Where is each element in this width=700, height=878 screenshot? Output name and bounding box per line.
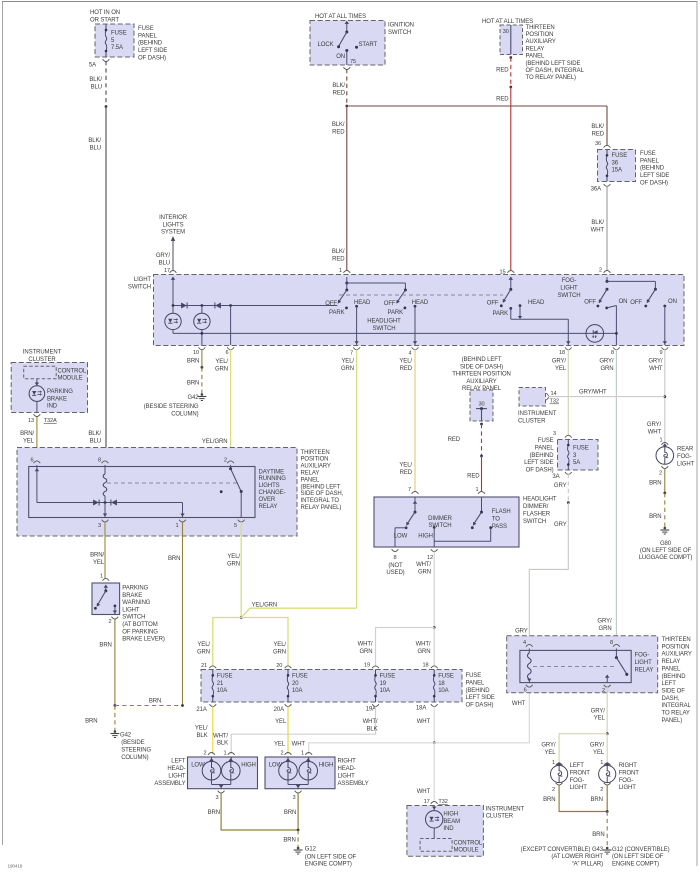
svg-text:LIGHTS: LIGHTS (162, 222, 183, 228)
DRL pin 6 connector (34, 461, 41, 463)
splice node RED (509, 86, 512, 89)
svg-text:WHT/: WHT/ (416, 562, 431, 568)
svg-text:FUSE: FUSE (538, 438, 554, 444)
wire WHT/GRN branch to fuse 19 (376, 628, 435, 667)
fog pole A ON contact to pin 8 (605, 307, 608, 310)
light switch pin 15 connector (507, 271, 514, 273)
svg-text:(BESIDE STEERING: (BESIDE STEERING (144, 404, 199, 410)
right headlight common return (287, 780, 289, 785)
svg-text:MODULE: MODULE (454, 848, 479, 854)
svg-text:ON: ON (336, 54, 345, 60)
wire YEL/GRN from pin 7 down (356, 350, 358, 609)
pin 6 connector (227, 347, 234, 349)
svg-text:RELAY: RELAY (301, 471, 320, 477)
svg-text:9: 9 (659, 350, 662, 356)
ground G42 (beside steering column) (201, 393, 204, 396)
svg-text:1: 1 (339, 268, 342, 274)
dimmer switch blade (413, 501, 417, 504)
svg-text:2: 2 (280, 751, 283, 757)
svg-text:BLK: BLK (217, 741, 228, 747)
DRL diode bus (37, 502, 183, 504)
diode D2 on bus (215, 303, 221, 309)
svg-text:GRY/: GRY/ (591, 708, 606, 714)
svg-text:FOG-: FOG- (570, 778, 585, 784)
svg-text:HOT IN ON: HOT IN ON (90, 10, 120, 16)
svg-text:AUXILIARY: AUXILIARY (526, 39, 556, 45)
svg-text:OF DASH): OF DASH) (526, 468, 554, 474)
wire BRN from rear fog light (664, 468, 666, 493)
svg-text:BRN: BRN (99, 642, 111, 648)
svg-text:YEL/: YEL/ (215, 359, 228, 365)
wire GRY down and over to fog relay pin 4 (529, 503, 568, 646)
svg-text:BRN: BRN (649, 514, 661, 520)
parking brake pin 2 connector (112, 617, 119, 619)
svg-text:8: 8 (610, 640, 613, 646)
PASS contact wiring (489, 526, 492, 529)
wire GRY/GRN from pin 8 to fog light relay pin 8 (615, 350, 617, 646)
wire RED to dimmer switch pin 1 (481, 456, 483, 492)
DRL diode D4 (111, 500, 117, 506)
wire YEL from fuse 20A to right headlight pin 2 (287, 706, 289, 754)
svg-text:7: 7 (408, 487, 411, 493)
pin 8 connector (613, 347, 620, 349)
svg-text:2: 2 (599, 268, 602, 274)
wire GRY/WHT from pin 9 to rear fog light (664, 350, 666, 444)
fog feed PARK contact (509, 307, 512, 310)
svg-text:LIGHT: LIGHT (677, 461, 695, 467)
light switch internal feed from pin 17 (171, 277, 175, 280)
fog relay pin 2 connector (604, 685, 611, 687)
GRY/YEL junction node (606, 732, 609, 735)
svg-text:1: 1 (600, 760, 603, 766)
svg-text:FLASHER: FLASHER (523, 512, 551, 518)
svg-text:GRN: GRN (197, 649, 210, 655)
left headlight pin 1 connector (228, 753, 235, 755)
pin 7 connector (412, 492, 419, 494)
fog switch pole B (654, 288, 657, 291)
svg-text:3: 3 (292, 795, 295, 801)
parking brake warning light switch box (102, 578, 109, 580)
pin 18 connector (565, 347, 572, 349)
svg-text:GRN: GRN (273, 649, 286, 655)
svg-text:T32A: T32A (44, 418, 57, 424)
svg-text:5: 5 (234, 523, 237, 529)
svg-text:GRY/: GRY/ (648, 359, 663, 365)
svg-text:RELAY: RELAY (635, 667, 654, 673)
instrument cluster box (high beam ind) (431, 802, 438, 804)
svg-text:13: 13 (28, 418, 34, 424)
LOW contact to pin 8 (405, 526, 408, 529)
node pin6 branch (229, 304, 232, 307)
fuse F18 10A (433, 670, 435, 676)
fuse panel box (fuse 5) (95, 24, 134, 57)
svg-text:PANEL: PANEL (535, 445, 554, 451)
svg-text:AUXILIARY: AUXILIARY (662, 652, 692, 658)
svg-text:BRN: BRN (149, 698, 161, 704)
svg-text:YEL/: YEL/ (399, 463, 412, 469)
parking brake switch blade (104, 585, 108, 588)
svg-text:DASH,: DASH, (662, 696, 680, 702)
svg-text:19: 19 (380, 681, 387, 687)
light switch pin 17 connector (170, 271, 177, 273)
svg-text:BRN: BRN (283, 838, 295, 844)
fog relay pin 2 arrow contact (606, 677, 608, 683)
mechanical coupling dashed line (339, 294, 503, 296)
svg-text:(BESIDE: (BESIDE (121, 740, 144, 746)
svg-text:COLUMN): COLUMN) (171, 411, 198, 417)
YEL/GRN branch to fuse 20 (241, 618, 288, 667)
fog relay coupling dashed line (533, 666, 614, 668)
svg-text:FUSE: FUSE (111, 31, 127, 37)
fog feed HEAD contact (519, 304, 522, 307)
left headlight common return (211, 780, 213, 785)
wire GRY/WHT horizontal from cluster pin 14 (548, 396, 665, 398)
DRL diode D3 (93, 500, 99, 506)
svg-text:30: 30 (503, 29, 509, 35)
DRL coil from pin 8 (104, 465, 106, 474)
svg-text:BLK/: BLK/ (88, 431, 101, 437)
svg-text:(BEHIND LEFT SIDE: (BEHIND LEFT SIDE (526, 61, 581, 67)
svg-text:190418: 190418 (8, 864, 23, 869)
svg-text:(BEHIND: (BEHIND (138, 41, 163, 47)
svg-text:5A: 5A (89, 63, 96, 69)
wire BRN from right front fog light (606, 785, 608, 812)
svg-text:(ON LEFT SIDE OF: (ON LEFT SIDE OF (612, 854, 664, 860)
wire BLK/RED horizontal to fuse 36 (347, 105, 607, 107)
svg-text:BLK: BLK (366, 726, 377, 732)
wire GRY dashed from fuse 3A (567, 474, 569, 503)
wire BLK/BLU down to DRL relay pin 8 (105, 107, 107, 462)
svg-text:DIMMER: DIMMER (428, 516, 452, 522)
svg-text:WHT: WHT (648, 429, 662, 435)
svg-text:HEAD: HEAD (412, 300, 429, 306)
svg-text:30: 30 (478, 402, 484, 408)
svg-text:FLASH: FLASH (492, 509, 511, 515)
svg-text:10A: 10A (438, 688, 448, 694)
svg-text:BRAKE LEVER): BRAKE LEVER) (122, 637, 165, 643)
svg-text:BRN: BRN (187, 359, 199, 365)
feed link pin1 to pole2 (347, 282, 406, 284)
svg-text:8: 8 (611, 350, 614, 356)
svg-text:RED: RED (332, 256, 345, 262)
svg-text:1: 1 (175, 523, 178, 529)
svg-text:ON: ON (619, 299, 628, 305)
wire RED down to light switch pin 15 (510, 87, 512, 271)
wire YEL/RED from pin 4 to dimmer pin 7 (414, 350, 416, 492)
svg-text:YEL/: YEL/ (197, 642, 210, 648)
wire YEL/GRN from pin 6 to DRL relay pin 2 (230, 350, 232, 462)
svg-text:THIRTEEN POSITION: THIRTEEN POSITION (452, 372, 511, 378)
svg-text:RIGHT: RIGHT (619, 763, 638, 769)
svg-text:BLK/: BLK/ (332, 83, 345, 89)
wire YEL/BLK from fuse 21A to left headlight pin 2 (212, 706, 214, 754)
svg-text:(BEHIND: (BEHIND (530, 453, 555, 459)
svg-text:LIGHT: LIGHT (134, 277, 152, 283)
svg-text:GRY/: GRY/ (156, 253, 171, 259)
svg-text:WHT: WHT (292, 742, 306, 748)
svg-text:LIGHT: LIGHT (122, 607, 140, 613)
pin 5A connector (103, 59, 110, 61)
svg-text:36: 36 (595, 141, 601, 147)
parking lamp diode bus (173, 305, 337, 307)
svg-text:SWITCH: SWITCH (557, 293, 580, 299)
svg-text:6: 6 (524, 688, 527, 694)
fog relay pin 6 connector (526, 685, 533, 687)
svg-text:2: 2 (552, 787, 555, 793)
svg-text:4: 4 (523, 640, 526, 646)
svg-text:LIGHTS: LIGHTS (259, 483, 280, 489)
svg-text:YEL: YEL (274, 742, 286, 748)
svg-text:18: 18 (422, 663, 428, 669)
svg-text:RED: RED (496, 68, 509, 74)
svg-text:GRN: GRN (359, 649, 372, 655)
svg-text:FOG-: FOG- (677, 454, 692, 460)
headlight switch pole 1 (345, 282, 348, 285)
wire BLK/BLU dashed from fuse 5 (105, 61, 107, 106)
junction GRY/WHT with instrument cluster branch (663, 395, 666, 398)
svg-text:(EXCEPT CONVERTIBLE) G43: (EXCEPT CONVERTIBLE) G43 (521, 847, 604, 853)
svg-text:RED: RED (332, 129, 345, 135)
left headlight pin 3 connector (218, 791, 225, 793)
svg-text:LIGHT: LIGHT (635, 660, 653, 666)
fog feed pole (pin 15) (509, 277, 513, 280)
svg-text:OF DASH, INTEGRAL: OF DASH, INTEGRAL (526, 68, 585, 74)
svg-text:18: 18 (559, 350, 565, 356)
svg-text:BLU: BLU (159, 260, 170, 266)
svg-text:RELAY PANEL): RELAY PANEL) (301, 505, 342, 511)
lower indicator bus (172, 330, 174, 334)
svg-text:CLUSTER: CLUSTER (28, 357, 56, 363)
svg-text:GRN: GRN (417, 649, 430, 655)
headlight dimmer flasher switch box (374, 497, 519, 547)
svg-text:1: 1 (301, 751, 304, 757)
fuse F21 10A (212, 670, 214, 676)
svg-text:17: 17 (424, 799, 430, 805)
fog feed link to pin 18 (511, 318, 569, 320)
svg-text:LEFT SIDE: LEFT SIDE (524, 460, 553, 466)
svg-text:10A: 10A (217, 688, 227, 694)
light switch pin 2 connector (604, 271, 611, 273)
svg-text:TO: TO (492, 516, 500, 522)
svg-text:OF DASH): OF DASH) (466, 703, 494, 709)
svg-text:AUXILIARY: AUXILIARY (301, 464, 331, 470)
control module box (high beam) (420, 839, 452, 852)
svg-text:YEL: YEL (544, 750, 556, 756)
DRL bus node (104, 501, 107, 504)
svg-text:G42: G42 (120, 732, 132, 738)
svg-text:BLK/: BLK/ (89, 77, 102, 83)
svg-text:BLK: BLK (196, 733, 207, 739)
svg-text:18A: 18A (416, 706, 426, 712)
svg-text:PARK: PARK (493, 311, 509, 317)
svg-text:YEL: YEL (594, 716, 606, 722)
page border frame (decorative) (2, 1, 698, 3)
svg-text:HEAD-: HEAD- (338, 766, 356, 772)
wire BLK/RED dashed from ignition pin 75 (346, 69, 348, 104)
svg-text:LIGHT: LIGHT (338, 774, 356, 780)
svg-text:AUXILIARY: AUXILIARY (466, 379, 496, 385)
fog relay pin 4 connector (526, 644, 533, 646)
svg-text:OFF: OFF (584, 300, 596, 306)
right headlight pin 3 connector (295, 791, 302, 793)
svg-text:GRN: GRN (341, 366, 354, 372)
svg-text:3A: 3A (552, 474, 559, 480)
splice node on BLK/BLU (105, 105, 108, 108)
svg-text:ENGINE COMPT): ENGINE COMPT) (305, 862, 352, 868)
wire WHT/BLK from fuse 19A to left headlight pin 1 (231, 706, 375, 754)
pin 7 connector (353, 347, 360, 349)
svg-text:IGNITION: IGNITION (388, 23, 414, 29)
svg-text:GRY/: GRY/ (597, 619, 612, 625)
high beam indicator bulb (433, 806, 435, 811)
svg-text:RELAY: RELAY (259, 504, 278, 510)
DRL pin 1 connector (179, 520, 186, 522)
fuse F5 7.5A (105, 24, 107, 30)
fog switch pole A (606, 288, 609, 291)
svg-text:LOCK: LOCK (318, 42, 334, 48)
svg-text:1: 1 (223, 751, 226, 757)
svg-text:FUSE: FUSE (573, 446, 589, 452)
svg-text:RIGHT: RIGHT (338, 759, 357, 765)
DRL pin 2 connector (227, 461, 234, 463)
svg-text:YEL/GRN: YEL/GRN (202, 439, 228, 445)
svg-text:CLUSTER: CLUSTER (486, 814, 514, 820)
wire BLK/WHT to light switch pin 2 (606, 186, 608, 271)
YEL/GRN junction node (240, 616, 243, 619)
svg-text:LIGHT: LIGHT (570, 785, 588, 791)
svg-text:RED: RED (467, 474, 480, 480)
wire WHT horizontal right headlight pin1 / fog relay pin 6 (309, 689, 530, 755)
svg-text:(ON LEFT SIDE OF: (ON LEFT SIDE OF (640, 548, 692, 554)
wire BRN from left front fog light (559, 785, 607, 812)
svg-text:GRN: GRN (227, 561, 240, 567)
right headlight pin 1 connector (305, 753, 312, 755)
svg-text:7.5A: 7.5A (111, 45, 123, 51)
svg-text:WHT: WHT (512, 701, 526, 707)
svg-text:36: 36 (612, 160, 619, 166)
svg-text:HIGH: HIGH (241, 763, 256, 769)
pin 14 connector (546, 393, 548, 400)
svg-text:PANEL: PANEL (138, 33, 157, 39)
svg-text:BRN: BRN (543, 797, 555, 803)
svg-text:SYSTEM: SYSTEM (161, 230, 185, 236)
svg-text:20A: 20A (274, 707, 284, 713)
svg-text:YEL/: YEL/ (273, 642, 286, 648)
svg-text:(BEHIND: (BEHIND (662, 674, 687, 680)
splice RED (480, 455, 483, 458)
svg-text:8: 8 (98, 458, 101, 464)
svg-text:3: 3 (98, 523, 101, 529)
fuse F36 15A (606, 150, 608, 156)
left headlight pin 2 connector (208, 753, 215, 755)
rear fog indicator lamp (586, 325, 604, 343)
svg-text:INTEGRAL TO: INTEGRAL TO (301, 498, 340, 504)
wire BRN/YEL from DRL pin 3 to parking brake switch (104, 522, 106, 579)
svg-text:ASSEMBLY: ASSEMBLY (338, 781, 369, 787)
svg-text:LOW: LOW (394, 533, 408, 539)
pin 4 connector (412, 347, 419, 349)
svg-text:TO RELAY: TO RELAY (662, 711, 690, 717)
svg-text:SIDE OF DASH): SIDE OF DASH) (460, 364, 503, 370)
svg-text:INSTRUMENT: INSTRUMENT (23, 350, 62, 356)
svg-text:2: 2 (600, 787, 603, 793)
right headlight assembly box (265, 757, 335, 789)
svg-text:7: 7 (350, 350, 353, 356)
svg-text:FUSE: FUSE (438, 674, 454, 680)
svg-text:SWITCH: SWITCH (428, 523, 451, 529)
svg-text:FOG-: FOG- (619, 778, 634, 784)
svg-text:RED: RED (592, 131, 605, 137)
svg-text:GRN: GRN (600, 366, 613, 372)
svg-text:4: 4 (408, 350, 411, 356)
svg-text:(NOT: (NOT (388, 563, 403, 569)
svg-text:HEAD-: HEAD- (167, 766, 185, 772)
svg-text:GRY/: GRY/ (599, 359, 614, 365)
pin 3 connector (565, 435, 572, 437)
wire BRN from right headlight pin 3 (297, 793, 299, 830)
svg-text:(ON LEFT SIDE OF: (ON LEFT SIDE OF (305, 854, 357, 860)
svg-text:FUSE: FUSE (138, 26, 154, 32)
node below lower 30 box (480, 423, 483, 426)
svg-text:WHT/: WHT/ (416, 642, 431, 648)
svg-text:18: 18 (438, 681, 445, 687)
svg-text:PARK: PARK (388, 310, 404, 316)
svg-text:PANEL: PANEL (662, 666, 681, 672)
headlight switch pole 2 (404, 283, 406, 290)
WHT junction node (433, 741, 436, 744)
svg-text:YEL/: YEL/ (195, 726, 208, 732)
wire WHT/GRN from pin 12 (433, 551, 435, 627)
svg-text:USED): USED) (386, 570, 404, 576)
svg-text:WHT/: WHT/ (358, 642, 373, 648)
svg-text:YEL: YEL (555, 366, 567, 372)
svg-text:15: 15 (499, 270, 505, 276)
diode D1 on bus (181, 303, 187, 309)
svg-text:GRN: GRN (418, 569, 431, 575)
pin 75 of ignition switch (346, 51, 348, 66)
svg-text:PASS: PASS (492, 524, 507, 530)
fuse panel box (fuse 36) (598, 150, 636, 182)
svg-text:PANEL: PANEL (466, 680, 485, 686)
svg-text:BRAKE: BRAKE (47, 396, 67, 402)
svg-text:(AT LOWER RIGHT: (AT LOWER RIGHT (551, 854, 603, 860)
svg-text:(BEHIND LEFT: (BEHIND LEFT (462, 357, 502, 363)
svg-text:2: 2 (224, 458, 227, 464)
svg-text:WHT: WHT (417, 719, 431, 725)
svg-text:LIGHT: LIGHT (168, 774, 186, 780)
svg-text:PARKING: PARKING (47, 389, 73, 395)
svg-text:21A: 21A (196, 707, 206, 713)
svg-text:FOG-: FOG- (635, 653, 650, 659)
svg-text:2: 2 (203, 751, 206, 757)
svg-text:DIMMER/: DIMMER/ (523, 504, 549, 510)
svg-text:G12 (CONVERTIBLE): G12 (CONVERTIBLE) (612, 847, 670, 853)
splice node BLK/RED (345, 105, 348, 108)
svg-text:OFF: OFF (384, 301, 396, 307)
svg-text:ON: ON (668, 299, 677, 305)
svg-text:8: 8 (393, 555, 396, 561)
wire GRY/YEL from pin 18 to fuse 3 (567, 350, 569, 437)
svg-text:20: 20 (276, 663, 282, 669)
cluster pin 13 connector (36, 401, 38, 412)
svg-text:LEFT SIDE: LEFT SIDE (138, 48, 167, 54)
svg-text:LUGGAGE COMPT): LUGGAGE COMPT) (639, 555, 693, 561)
svg-text:G80: G80 (660, 541, 672, 547)
node below relay panel 30 (509, 56, 512, 59)
wire BRN dashed down to ground G42 second (114, 706, 116, 732)
DRL relay inner box (29, 467, 255, 518)
svg-text:SWITCH: SWITCH (388, 30, 411, 36)
